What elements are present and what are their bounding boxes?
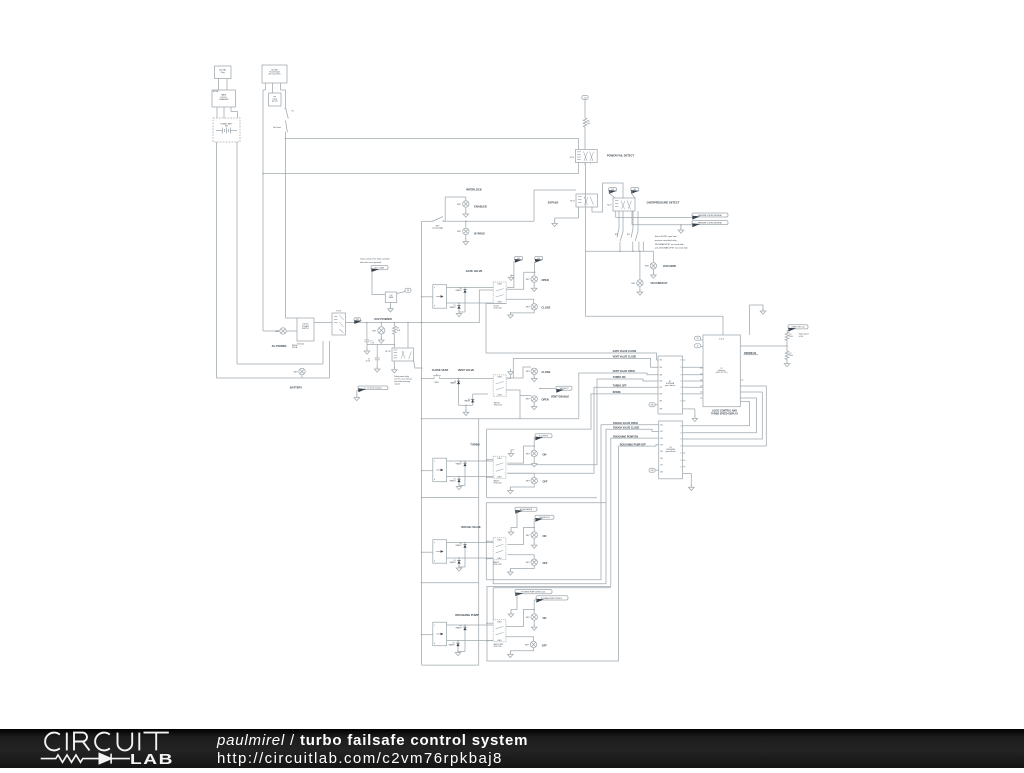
pins U2 right (683, 359, 686, 361)
wire rough relay to OFF lamp (507, 555, 534, 559)
svg-text:a: a (434, 625, 435, 627)
wire pump OFF ground loop (510, 648, 533, 654)
svg-text:IN1: IN1 (660, 360, 663, 362)
lamp VACUUMFAULT (637, 280, 643, 286)
lamp rough OFF (531, 559, 537, 565)
wire gate opto outputs (447, 287, 494, 289)
diode D4 turbo (464, 460, 466, 462)
resistor R6 100k (785, 351, 789, 360)
diode D6 rough (464, 542, 466, 544)
svg-text:b: b (434, 643, 435, 645)
ground U4 top (760, 308, 766, 314)
wire U4 right to resistors (743, 345, 787, 347)
wire resistor to relay (584, 127, 586, 149)
flag +5V node (582, 96, 588, 100)
svg-text:OVERPRESSURE DETECT: OVERPRESSURE DETECT (647, 201, 680, 205)
ground BYPASS lamp (465, 235, 467, 241)
wire 24V POWER bus (346, 322, 422, 324)
lamp turbo OFF (531, 478, 537, 484)
svg-text:10 uF: 10 uF (366, 361, 370, 363)
diode D10 vent lower (459, 404, 473, 406)
wire flag to resistor (787, 329, 790, 332)
wire loop vertical at power fail (578, 139, 580, 150)
flag relay coil B (631, 188, 639, 194)
ground turbo ON lamp (533, 457, 535, 463)
lamp AC POWER indicator (263, 330, 280, 332)
svg-text:E1E1: E1E1 (498, 395, 502, 397)
svg-text:GATE VALVE: GATE VALVE (466, 269, 483, 273)
svg-text:VACUUMOK: VACUUMOK (663, 265, 677, 268)
wire interlock to bypass relay (444, 220, 534, 222)
ground pump OFF (508, 651, 514, 657)
wire VENT VALVE OPEN signal (519, 396, 521, 419)
svg-text:Select NO/NC input frompressur: Select NO/NC input frompressure controll… (655, 235, 689, 250)
lamp gate OPEN (531, 276, 537, 282)
wire section left edge lower (478, 419, 480, 665)
wire +5V to resistor (584, 100, 586, 119)
wire turbo section box (486, 429, 488, 498)
svg-text:R?100k: R?100k (789, 353, 793, 357)
wire vent diode out (473, 393, 488, 395)
wire to pressure flag B (631, 211, 633, 225)
svg-text:U?Netduino(GPIO 3.3 TTL): U?Netduino(GPIO 3.3 TTL) (716, 368, 728, 374)
svg-text:CLOSE: CLOSE (542, 370, 551, 374)
svg-text:SW?: SW? (526, 453, 530, 455)
ground sensor box (390, 303, 392, 308)
ground turbo upper (511, 450, 514, 453)
diode D9 pump (457, 640, 459, 642)
svg-text:RAVE14V DCCHARGER: RAVE14V DCCHARGER (219, 94, 229, 102)
ground U2 (683, 408, 695, 410)
svg-text:RS-75-24: RS-75-24 (298, 344, 305, 346)
svg-text:10k: 10k (587, 123, 590, 125)
wire pump relay to ON lamp (506, 610, 534, 627)
ground gate diodes (459, 311, 465, 313)
ground turbo OFF (508, 488, 514, 494)
wire pump section box (487, 587, 619, 662)
ground gate open lamp (533, 282, 535, 287)
wire turbo relay to OFF lamp (507, 473, 534, 477)
svg-text:VENT VALVE: VENT VALVE (458, 368, 475, 372)
wire rail to rough opto (421, 551, 423, 553)
svg-text:SW?: SW? (526, 371, 530, 373)
wire ROUGH VALVE OPEN signal (486, 425, 658, 580)
lamp BYPASS indicator (465, 221, 467, 228)
svg-text:NO1: NO1 (615, 234, 618, 236)
flag U4 A (695, 336, 701, 340)
svg-text:5VTRANST: 5VTRANST (456, 288, 462, 292)
svg-text:120 VACPlug: 120 VACPlug (219, 69, 227, 74)
svg-text:ENABLED: ENABLED (474, 204, 487, 208)
wire resistor junction (786, 341, 788, 352)
svg-text:E1E1: E1E1 (497, 539, 501, 541)
svg-text:ROUGH VALVE OPEN: ROUGH VALVE OPEN (613, 422, 638, 425)
svg-text:E1E1: E1E1 (497, 458, 501, 460)
relay RLY7 overpressure (613, 198, 635, 211)
power supply PS1 24V DC POWER SUPPLY (297, 318, 314, 341)
svg-text:CLOSE VENT: CLOSE VENT (432, 368, 449, 372)
svg-text:24V: 24V (356, 319, 359, 321)
svg-text:RL?11: RL?11 (385, 351, 390, 353)
svg-text:SW?: SW? (526, 399, 530, 401)
ground gate relay top (508, 274, 514, 280)
ground rough OFF (508, 569, 514, 575)
IC U2 ULN2003A (658, 356, 683, 414)
ground rough ON lamp (533, 538, 535, 544)
wire section bottom pump (422, 664, 479, 666)
ground gate close lamp (511, 310, 535, 314)
svg-text:IN4: IN4 (660, 445, 663, 447)
ground ENABLED lamp (465, 207, 467, 213)
svg-text:ROUGH VALVE CLOSE: ROUGH VALVE CLOSE (613, 427, 639, 430)
diode D3 vent 5V TRANST (458, 378, 460, 405)
wire rough relay to ON lamp (507, 528, 534, 545)
ground rough upper (508, 529, 514, 535)
ground pump diodes (458, 651, 465, 653)
svg-text:IN2: IN2 (660, 367, 663, 369)
svg-text:5VTRANST: 5VTRANST (456, 462, 462, 466)
ground 24v net flag (354, 395, 360, 401)
svg-text:TURBO CTRL 0-10: TURBO CTRL 0-10 (792, 327, 805, 329)
CircuitLab logo (0, 729, 210, 768)
flag U3 common (649, 468, 655, 472)
lamp rough ON (533, 528, 535, 533)
svg-text:Turbo speed0-10V: Turbo speed0-10V (799, 334, 809, 338)
svg-text:VACUUMFAULT: VACUUMFAULT (650, 282, 668, 285)
svg-text:POWER FAIL DETECT: POWER FAIL DETECT (607, 154, 635, 158)
svg-text:SW11: SW11 (434, 382, 439, 384)
switch SW locking toggle (422, 220, 432, 222)
svg-text:SW?: SW? (525, 644, 529, 646)
svg-text:IN7: IN7 (660, 465, 663, 467)
svg-text:SW?: SW? (526, 617, 530, 619)
lamp pump OFF (530, 641, 536, 647)
ground 24V lamp (380, 334, 382, 339)
wire rough section box (486, 502, 606, 504)
wire GATE VALVE CLOSE signal (486, 304, 659, 361)
svg-text:ON: ON (543, 616, 547, 620)
svg-text:LOGIC CONTROL ANDTURBO SPEED D: LOGIC CONTROL ANDTURBO SPEED DISPLAY (711, 409, 738, 415)
ground vent diodes (465, 405, 467, 407)
pins U4 right (740, 345, 743, 347)
wire gate relay to open lamp (506, 272, 534, 289)
lamp vent CLOSE (531, 368, 537, 374)
svg-text:Relay power delayto let in no: Relay power delayto let in no air exhaus… (394, 376, 412, 386)
resistor R5 100k (785, 332, 789, 341)
svg-text:usesafetyground: usesafetyground (272, 96, 278, 102)
svg-text:ON: ON (543, 534, 547, 538)
relay RLY4 power fail (576, 150, 598, 163)
svg-text:E1E1: E1E1 (498, 284, 502, 286)
optocoupler gate valve (433, 285, 447, 309)
diode D2 5V TRANST (458, 302, 460, 304)
wire pump opto outputs (447, 624, 494, 626)
svg-text:IN2: IN2 (660, 431, 663, 433)
lamp vent OPEN (531, 396, 537, 402)
svg-text:S1: S1 (292, 111, 294, 113)
svg-text:IN4: IN4 (660, 381, 663, 383)
svg-text:BYPASS: BYPASS (548, 201, 559, 205)
wire main power bus top (286, 138, 579, 140)
svg-text:O: O (680, 446, 682, 448)
svg-text:5VTRANST: 5VTRANST (450, 381, 456, 385)
svg-text:SW?: SW? (372, 330, 376, 332)
svg-text:U3ULN2003Agate collector: U3ULN2003Agate collector (665, 447, 675, 453)
svg-text:O: O (680, 374, 682, 376)
wire gate relay to close lamp (506, 299, 534, 303)
ground U3 (683, 472, 692, 474)
wire rail to pump opto (421, 634, 423, 636)
wire ROUGHING PUMP ON signal (611, 438, 659, 586)
svg-text:IN3: IN3 (660, 438, 663, 440)
relay K5 roughing pump (dashed) (493, 620, 506, 642)
svg-text:GV 208STUD 2C26: GV 208STUD 2C26 (494, 306, 502, 310)
block charger RAVE 14V DC CHARGER (212, 90, 236, 107)
svg-text:SW?: SW? (526, 535, 530, 537)
block J1 120 VAC Plug (215, 66, 232, 79)
flag 24V gate B (535, 256, 543, 262)
block use safety ground (269, 93, 282, 106)
flag turbo controller input (788, 325, 808, 332)
capacitor C1 with ground (366, 322, 368, 324)
wire enabled lamp branch (444, 197, 446, 221)
wire section divider vent top (421, 418, 423, 420)
wire vent enable flag (540, 388, 556, 390)
svg-text:SW?: SW? (275, 331, 279, 333)
wire vent relay to close lamp (506, 367, 531, 378)
svg-text:SPARE: SPARE (613, 391, 621, 394)
flag U2 common (649, 403, 655, 407)
svg-text:SPARE IO: SPARE IO (744, 351, 756, 355)
svg-text:IN7: IN7 (660, 401, 663, 403)
svg-text:24V DCPOWERSUPPLY: 24V DCPOWERSUPPLY (302, 324, 310, 331)
wire turbo opto outputs (447, 460, 494, 462)
svg-text:AC POWER: AC POWER (272, 344, 287, 348)
svg-text:VENT VALVE OPEN: VENT VALVE OPEN (613, 370, 635, 373)
svg-text:5VTRANST: 5VTRANST (450, 479, 456, 483)
resistor R4 relay coil (394, 322, 396, 324)
flag ROUGH VALVE CONTROL B (535, 515, 554, 522)
svg-text:24V: 24V (517, 258, 520, 260)
svg-text:24V POWER: 24V POWER (374, 317, 392, 321)
wire bypass relay loop to overpressure (592, 183, 623, 212)
svg-text:Takes control of the turbo con: Takes control of the turbo controllerwhe… (360, 257, 390, 264)
block SENSORON (385, 292, 396, 303)
wire SPARE signal (487, 394, 659, 429)
svg-text:KOBALT BATT24V: KOBALT BATT24V (221, 123, 234, 128)
flag ROUGHING PUMP CONTROL A (515, 590, 552, 597)
svg-text:TURBO OFF: TURBO OFF (613, 384, 627, 387)
relay RLY11 delay relay (392, 348, 414, 361)
svg-text:b: b (434, 561, 435, 563)
svg-text:NO2: NO2 (627, 234, 630, 236)
svg-text:SW?: SW? (526, 307, 530, 309)
svg-text:CLOSE: CLOSE (542, 306, 551, 310)
wire turbo OFF lamp ground loop (510, 484, 534, 490)
svg-text:O: O (680, 439, 682, 441)
wire rough opto outputs (447, 542, 494, 544)
svg-text:IN6: IN6 (660, 394, 663, 396)
svg-text:VENT VALVE CLOSE: VENT VALVE CLOSE (613, 356, 637, 359)
ground VACUUMFAULT (639, 286, 641, 291)
diode D1 5V TRANST (464, 287, 466, 289)
svg-text:E1E1: E1E1 (498, 377, 502, 379)
svg-text:IN8: IN8 (660, 471, 663, 473)
block 120 VAC Panel Recessed Plex (262, 65, 287, 83)
wire pump relay to OFF lamp (506, 637, 534, 642)
svg-text:O: O (680, 381, 682, 383)
svg-text:OFF: OFF (543, 561, 549, 565)
svg-text:SW?: SW? (526, 562, 530, 564)
switch SW11 close vent (421, 378, 423, 380)
optocoupler turbo (433, 458, 447, 482)
battery BT1 KOBALT BATT 24V (dashed) (213, 118, 240, 142)
svg-text:IN3: IN3 (660, 374, 663, 376)
wire pump relay pins (486, 622, 488, 624)
wire vent switch to relay (440, 377, 494, 379)
svg-text:SW?: SW? (631, 283, 635, 285)
lamp turbo ON (533, 446, 535, 451)
ground divider (786, 360, 788, 363)
wire flags to relay (610, 191, 615, 198)
wire power rail down (285, 139, 287, 319)
diode D8 pump (464, 624, 466, 626)
relay K1 gate valve (dashed) (493, 282, 506, 304)
svg-text:IN5: IN5 (660, 387, 663, 389)
wire selector output bus (585, 250, 653, 252)
ground vent open lamp (533, 402, 535, 406)
svg-text:ROUGHING PUMP: ROUGHING PUMP (455, 613, 479, 617)
svg-text:5v G 3v: 5v G 3v (719, 339, 724, 341)
pins U4 left (700, 339, 703, 341)
svg-text:24V: 24V (537, 258, 540, 260)
wire battery return (217, 377, 330, 379)
svg-text:SW?: SW? (457, 231, 461, 233)
ground relay RLY11 (393, 361, 395, 369)
svg-text:a: a (434, 461, 435, 463)
svg-text:o: o (590, 164, 591, 166)
wire TURBO OFF signal (507, 387, 658, 473)
lamp pump ON (533, 610, 535, 615)
node junction neutral (262, 173, 264, 175)
capacitor C2 with ground (394, 344, 396, 346)
svg-text:SEE2X?STUD 2C26: SEE2X?STUD 2C26 (494, 481, 502, 485)
flag PRESSURE CONTROLLER RELAY A (692, 213, 728, 220)
wire battery bottom loop (237, 363, 323, 365)
svg-text:SW?Locking Toggle: SW?Locking Toggle (432, 226, 443, 230)
IC U4 Netduino logic controller (703, 335, 740, 407)
ground turbo diodes (459, 485, 465, 487)
svg-text:120 VACPanel/wristletRecessed: 120 VACPanel/wristletRecessed Plex (269, 68, 281, 75)
svg-text:5VTRANST: 5VTRANST (450, 560, 456, 564)
wire turbo relay pins (486, 459, 488, 461)
wire section divider gate valve top (421, 322, 423, 324)
svg-text:a: a (434, 287, 435, 289)
wire turbo flag stem (523, 438, 536, 446)
svg-text:R?TRANST: R?TRANST (464, 399, 470, 403)
svg-text:ACTIVE: ACTIVE (213, 90, 218, 93)
svg-text:ROUGHING PUMP ON: ROUGHING PUMP ON (613, 435, 638, 438)
relay K3 turbo (dashed) (493, 456, 506, 478)
wire bus to logic controller (585, 315, 723, 317)
svg-text:o: o (584, 164, 585, 166)
svg-text:E1E1: E1E1 (497, 558, 501, 560)
svg-text:24V: 24V (633, 189, 636, 191)
relay K2 vent valve (dashed) (493, 375, 506, 396)
svg-text:ROUGHING PUMP CONTROL...: ROUGHING PUMP CONTROL... (541, 598, 564, 600)
svg-text:TURBO ON: TURBO ON (613, 376, 626, 379)
ground VACUUMOK (652, 269, 654, 274)
resistor R1 10k (583, 118, 587, 127)
svg-text:ROUGH VALVE: ROUGH VALVE (461, 525, 481, 529)
wire rough flag stems (511, 511, 517, 531)
wire pump flag stems (511, 594, 517, 613)
wire flag to sensor box (372, 271, 385, 295)
svg-text:O: O (680, 460, 682, 462)
wire neutral bus (263, 173, 579, 175)
svg-text:R?100k: R?100k (789, 334, 793, 338)
svg-text:SW?: SW? (645, 266, 649, 268)
svg-text:E1E1: E1E1 (497, 476, 501, 478)
wire relay out to rail (414, 360, 422, 368)
lamp 24V indicator (381, 322, 383, 324)
svg-text:OPEN: OPEN (542, 398, 549, 402)
flag relay coil A (609, 188, 617, 194)
svg-text:LAB: LAB (130, 751, 174, 767)
svg-text:5VTRANST: 5VTRANST (456, 543, 462, 547)
wire ROUGHING PUMP OFF signal (619, 445, 659, 661)
svg-text:INTERLOCK: INTERLOCK (466, 187, 482, 191)
svg-text:5VTRANST: 5VTRANST (449, 643, 455, 647)
svg-text:O: O (680, 387, 682, 389)
wire rough OFF ground loop (510, 565, 534, 571)
svg-text:VENT ENABLE: VENT ENABLE (551, 394, 570, 398)
svg-text:b: b (434, 306, 435, 308)
lamp VACUUMOK (650, 263, 656, 269)
svg-text:ROUGH VLV B: ROUGH VLV B (539, 517, 549, 519)
ground pressure flag stem (680, 225, 682, 229)
wire rail to turbo opto (421, 470, 423, 472)
diode D7 rough (458, 557, 460, 559)
svg-text:O: O (680, 453, 682, 455)
svg-text:OPEN: OPEN (542, 278, 549, 282)
wire VENT VALVE CLOSE signal (513, 358, 658, 378)
svg-text:+5VSENS: +5VSENS (389, 295, 394, 299)
wire rail to gate opto (421, 296, 423, 298)
wire power fail to bus (584, 163, 586, 317)
svg-text:RL?3: RL?3 (570, 201, 574, 203)
svg-text:O: O (680, 467, 682, 469)
flag 24V to RLY6 (371, 266, 388, 273)
wire section divider rough bottom (421, 582, 423, 584)
wire ROUGH VALVE CLOSE signal (493, 429, 659, 583)
svg-text:BYPASS: BYPASS (474, 231, 485, 235)
wire U4 top ground (750, 305, 763, 335)
svg-text:TU CONTROL: TU CONTROL (539, 436, 549, 438)
relay RLY3 bypass (576, 194, 598, 207)
optocoupler roughing pump (433, 622, 447, 646)
flag 24v net power (358, 386, 388, 392)
wire bus to RLY11 pin (407, 322, 409, 324)
relay K4 rough valve (dashed) (493, 538, 506, 560)
IC U3 ULN2003A (659, 421, 683, 479)
wires U2 to U4 (686, 366, 704, 368)
flag 5V supply (397, 292, 405, 294)
ground pump upper (508, 611, 514, 617)
svg-text:O: O (680, 360, 682, 362)
wire to vacuum ok lamp (652, 251, 654, 262)
svg-text:BATTERY: BATTERY (290, 385, 303, 389)
